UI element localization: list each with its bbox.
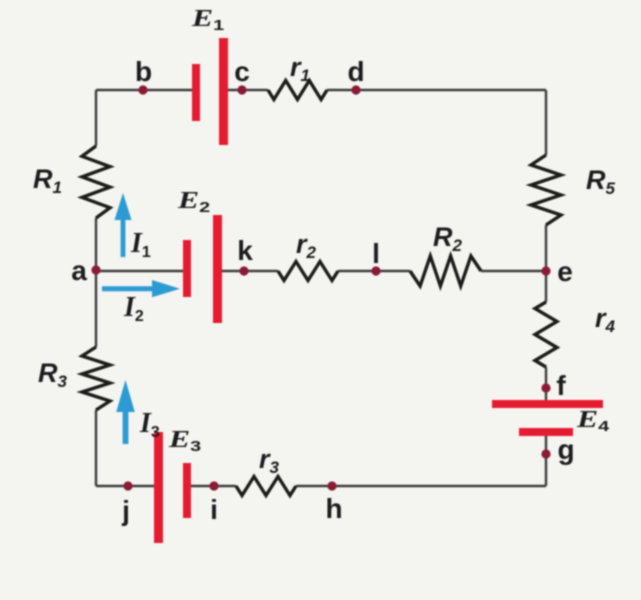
label resistor R3	[38, 358, 68, 391]
label node f	[556, 370, 566, 401]
wire: right vertical from R5 to node e	[545, 225, 547, 271]
battery E4 negative plate (short bar)	[519, 428, 573, 436]
node k	[239, 266, 248, 275]
resistor r1	[268, 81, 327, 100]
resistor r3	[236, 477, 296, 496]
resistor r2	[278, 262, 338, 281]
svg-text:i: i	[210, 494, 218, 525]
label node j	[121, 495, 130, 526]
battery E4 positive plate (long bar)	[492, 400, 603, 408]
svg-text:r3: r3	[259, 444, 280, 477]
svg-text:k: k	[237, 235, 253, 266]
svg-text:l: l	[372, 238, 380, 269]
svg-text:R2: R2	[433, 222, 463, 255]
resistor R2	[410, 256, 481, 286]
wire: right vertical from r4 to node f / battery E4 top plate	[545, 367, 547, 400]
label node e	[557, 256, 573, 287]
node c	[237, 85, 246, 94]
node a	[91, 265, 100, 274]
wire: left vertical from node a up to R1	[95, 218, 97, 271]
wire: bottom rail from r3 through i to battery E3 right plate	[190, 485, 236, 487]
resistor r4	[535, 302, 557, 367]
wire: top rail from r1 through d to top-right corner	[327, 89, 546, 91]
node l	[371, 266, 380, 275]
svg-text:r2: r2	[296, 229, 317, 262]
label node i	[210, 494, 218, 525]
svg-text:R3: R3	[38, 358, 68, 391]
wire: middle rail from node a to battery E2 negative plate	[96, 270, 184, 272]
wire: top rail from left corner to battery E1 negative plate	[96, 89, 193, 91]
svg-text:r4: r4	[595, 303, 616, 336]
resistor R3	[82, 347, 110, 410]
svg-text:c: c	[234, 56, 250, 87]
svg-text:r1: r1	[290, 52, 310, 85]
node b	[138, 85, 147, 94]
label resistor r1	[290, 52, 310, 85]
resistor R5	[531, 155, 561, 225]
wire: top rail from battery E1 positive plate through c, to r1	[226, 89, 268, 91]
wire: right vertical from top-right corner down to R5	[545, 90, 547, 155]
node f	[541, 383, 550, 392]
label resistor r4	[595, 303, 616, 336]
label resistor R2	[433, 222, 463, 255]
svg-text:e: e	[557, 256, 573, 287]
wire: top-left vertical segment from corner to R1	[95, 90, 97, 146]
battery E3 positive plate (long bar)	[154, 432, 163, 543]
svg-text:I3: I3	[139, 408, 160, 441]
label emf E2	[177, 188, 211, 216]
svg-text:g: g	[557, 434, 574, 465]
node j	[123, 481, 132, 490]
battery E1 negative plate (short bar)	[192, 64, 200, 121]
svg-text:E4: E4	[576, 407, 610, 435]
label resistor r2	[296, 229, 317, 262]
node i	[209, 481, 218, 490]
svg-text:a: a	[71, 255, 87, 286]
label current I3	[139, 408, 160, 441]
wire: middle rail from battery E2 positive plate through k to r2	[220, 270, 278, 272]
label resistor r3	[259, 444, 280, 477]
svg-text:f: f	[556, 370, 566, 401]
label emf E3	[168, 427, 202, 455]
wire: middle rail from R2 to node e	[481, 270, 546, 272]
svg-text:R1: R1	[33, 164, 62, 197]
current arrow I2	[102, 280, 180, 297]
label current I1	[130, 228, 151, 261]
svg-text:j: j	[121, 495, 130, 526]
svg-text:E1: E1	[191, 6, 225, 34]
svg-text:E2: E2	[177, 188, 211, 216]
wire: bottom rail from battery E3 left plate through j to bottom-left corner	[96, 485, 155, 487]
resistor R1	[82, 146, 110, 218]
label emf E4	[576, 407, 610, 435]
battery E2 negative plate (short bar)	[183, 240, 191, 297]
svg-text:I2: I2	[123, 292, 144, 325]
battery E3 negative plate (short bar)	[183, 463, 191, 518]
label node l	[372, 238, 380, 269]
label node h	[325, 493, 342, 524]
node h	[327, 481, 336, 490]
wire: bottom rail from right corner through h to r3	[296, 485, 546, 487]
battery E2 positive plate (long bar)	[213, 215, 222, 323]
battery E1 positive plate (long bar)	[219, 38, 228, 145]
current arrow I3	[116, 380, 135, 444]
wire: left vertical from R3 up to node a	[95, 271, 97, 347]
wire: left vertical from bottom corner up to R3	[95, 410, 97, 486]
label node k	[237, 235, 253, 266]
svg-text:E3: E3	[168, 427, 202, 455]
node g	[541, 449, 550, 458]
wire: right vertical from battery E4 bottom plate through g to bottom corner	[545, 436, 547, 486]
node d	[351, 85, 360, 94]
node e	[541, 266, 550, 275]
label resistor R5	[586, 165, 616, 198]
label node b	[135, 56, 152, 87]
label node c	[234, 56, 250, 87]
svg-text:R5: R5	[586, 165, 616, 198]
svg-text:I1: I1	[130, 228, 151, 261]
wire: right vertical from node e to r4	[545, 271, 547, 302]
svg-text:b: b	[135, 56, 152, 87]
svg-text:h: h	[325, 493, 342, 524]
wire: middle rail from r2 through l to R2	[338, 270, 410, 272]
svg-text:d: d	[347, 56, 364, 87]
label resistor R1	[33, 164, 62, 197]
current arrow I1	[115, 193, 132, 257]
label node a	[71, 255, 87, 286]
label node g	[557, 434, 574, 465]
label emf E1	[191, 6, 225, 34]
label node d	[347, 56, 364, 87]
label current I2	[123, 292, 144, 325]
